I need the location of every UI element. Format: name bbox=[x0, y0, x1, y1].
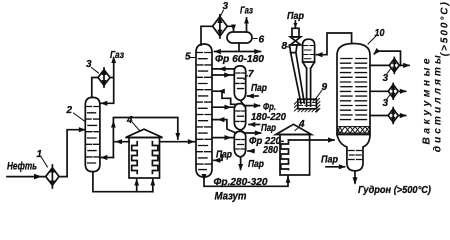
wire product fraction 280-320 down bbox=[240, 157, 242, 169]
label 3 (top condenser) bbox=[221, 1, 229, 16]
furnace 4 (left) coil left bbox=[132, 142, 138, 174]
svg-text:3: 3 bbox=[383, 98, 389, 109]
wire product vacuum distillate 2 bbox=[398, 90, 405, 92]
furnace 4 (left) coil right bbox=[152, 142, 158, 174]
label 6 bbox=[254, 35, 265, 46]
label 3 (cooler 1) bbox=[383, 69, 391, 84]
wire hot jet riser and transfer line bbox=[113, 118, 177, 158]
wire draw 1 from column 10 to cooler bbox=[370, 64, 389, 66]
label 2 bbox=[66, 105, 86, 122]
svg-text:280: 280 bbox=[262, 144, 278, 156]
wire furnace inlet riser right bbox=[152, 180, 154, 192]
wire vacuum column overhead to ejector condenser bbox=[317, 33, 352, 55]
label 4 (left furnace) bbox=[126, 115, 140, 131]
svg-text:6: 6 bbox=[259, 35, 265, 46]
wire steam into column 10 bbox=[326, 166, 345, 168]
svg-text:дистилляты: дистилляты bbox=[433, 55, 444, 152]
wire product vacuum distillate 1 bbox=[399, 64, 409, 66]
wire condenser 3 to gas outlet and reflux bbox=[110, 58, 114, 78]
wire vapour return stripper section 3 to column 5 (jog) bbox=[212, 120, 236, 133]
wire feed line to exchanger 1 bbox=[7, 176, 46, 178]
wire product fraction 220-280 bbox=[241, 130, 261, 133]
heat exchanger 1 bbox=[46, 165, 59, 188]
svg-text:Гудрон (>500°C): Гудрон (>500°C) bbox=[358, 184, 431, 196]
svg-text:Пар: Пар bbox=[261, 123, 276, 134]
condenser 3 (column 2 overhead) bbox=[98, 68, 110, 87]
label 3 (cooler 2) bbox=[383, 96, 390, 109]
wire reflux return to column 2 bbox=[101, 78, 114, 104]
furnace 4 (right) coil bbox=[281, 140, 289, 170]
condenser 3 (column 5 overhead) bbox=[213, 15, 228, 38]
section 1 trays bbox=[235, 73, 246, 89]
wire column 2 bottoms to furnace 4 bbox=[93, 172, 153, 192]
label 4 (right furnace) bbox=[295, 119, 305, 131]
furnace 4 (left) roof bbox=[126, 129, 163, 137]
svg-text:3: 3 bbox=[86, 59, 92, 70]
wire column 2 overhead to condenser 3 bbox=[92, 78, 98, 98]
label 5 bbox=[185, 52, 196, 63]
section 3 trays bbox=[235, 140, 246, 150]
svg-text:Газ: Газ bbox=[240, 6, 253, 17]
column 5 bbox=[196, 44, 212, 177]
label 8 bbox=[282, 41, 291, 52]
label 7 bbox=[244, 69, 254, 80]
section 2 trays bbox=[235, 111, 246, 121]
column 5 trays bbox=[196, 53, 211, 170]
wire draw 2 from column 10 to cooler bbox=[370, 90, 388, 92]
cooler 3 (vacuum distillate 2) bbox=[388, 83, 398, 99]
wire product vacuum distillate 3 bbox=[398, 115, 405, 117]
wire steam into section 1 bbox=[248, 95, 259, 97]
wire draw 3 from column 10 to cooler bbox=[370, 115, 388, 117]
column 2 bbox=[85, 97, 100, 171]
wire vapour return stripper section 2 to column 5 (jog) bbox=[213, 91, 236, 104]
wire gas outlet from separator 6 bbox=[246, 18, 248, 32]
svg-text:3: 3 bbox=[383, 73, 389, 84]
wire steam into column 5 bbox=[214, 155, 222, 160]
svg-text:Фр 60-180: Фр 60-180 bbox=[215, 53, 264, 65]
wire separator 6 bottoms: reflux to column 5 and product bbox=[215, 43, 261, 52]
separator 6 bbox=[227, 32, 252, 43]
wire steam into section 2 bbox=[249, 124, 260, 126]
furnace 4 (right) box bbox=[280, 135, 310, 176]
column 10 bottom head and stripping section bbox=[337, 135, 370, 171]
svg-text:180-220: 180-220 bbox=[251, 111, 286, 123]
svg-text:10: 10 bbox=[375, 28, 385, 39]
stripping column 7 section 2 bbox=[234, 104, 245, 130]
svg-text:Пар: Пар bbox=[251, 83, 267, 94]
svg-text:Газ: Газ bbox=[110, 50, 124, 61]
label 3 (left condenser) bbox=[86, 59, 99, 73]
column 10 bottom trays bbox=[349, 151, 362, 160]
wire draw from column 5 to stripper section 1 bbox=[212, 74, 234, 76]
column 2 trays bbox=[86, 107, 100, 164]
label 1 bbox=[37, 149, 48, 167]
cooler 3 (vacuum distillate 3) bbox=[388, 108, 398, 124]
wire column 5 overhead to condenser 3 bbox=[201, 26, 213, 45]
stripping column 7 section 1 bbox=[234, 66, 245, 101]
ejector condenser vessel bbox=[303, 39, 315, 106]
column 10 packing band (crosshatch) bbox=[337, 127, 369, 133]
label 9 bbox=[317, 82, 328, 98]
ejector 8 bbox=[290, 28, 305, 103]
furnace 4 (right) roof bbox=[276, 124, 312, 134]
column 10 trays bbox=[341, 59, 367, 120]
wire tar outlet bbox=[354, 171, 356, 183]
cooler 3 (vacuum distillate 1) bbox=[389, 58, 399, 74]
svg-text:Пар: Пар bbox=[321, 153, 338, 165]
svg-text:Пар: Пар bbox=[248, 159, 264, 170]
svg-text:Нефть: Нефть bbox=[7, 161, 37, 173]
wire draw from column 5 to stripper section 3 bbox=[212, 137, 234, 139]
svg-text:4: 4 bbox=[298, 119, 305, 130]
wire vapour return stripper section 1 to column 5 bbox=[212, 68, 234, 70]
wire column 5 bottoms (mazut) to furnace 4 right bbox=[204, 177, 288, 187]
svg-text:(>500°C): (>500°C) bbox=[440, 2, 450, 57]
svg-text:7: 7 bbox=[248, 69, 254, 80]
wire draw from column 5 to stripper section 2 bbox=[212, 106, 234, 108]
furnace 4 (left) box bbox=[129, 138, 160, 179]
wire transfer line into column 5 bbox=[160, 141, 195, 143]
wire condenser 3 to separator 6 bbox=[227, 26, 233, 30]
svg-text:2: 2 bbox=[66, 105, 73, 116]
wire furnace inlet riser left bbox=[136, 180, 138, 192]
label 10 bbox=[368, 28, 385, 44]
svg-text:Мазут: Мазут bbox=[215, 190, 247, 202]
wire furnace left outlet to riser bbox=[114, 141, 129, 143]
wire product fraction 180-220 bbox=[241, 101, 260, 106]
wire hot jet return to column 2 bbox=[101, 157, 113, 159]
svg-text:Вакуумные: Вакуумные bbox=[422, 58, 433, 144]
vacuum column 10 bbox=[337, 44, 370, 135]
wire steam into ejector bbox=[294, 21, 296, 27]
barometric condenser well 9 bbox=[294, 98, 320, 112]
wire exchanger 1 to column 2 bbox=[59, 130, 85, 177]
wire furnace 4 right outlet to vacuum column 10 bbox=[289, 139, 335, 141]
stripping column 7 section 3 bbox=[234, 131, 245, 157]
wire reflux loop back to column 10 top bbox=[374, 51, 400, 65]
wire steam into section 3 bbox=[248, 150, 254, 152]
svg-text:9: 9 bbox=[322, 82, 328, 93]
svg-text:Фр.280-320: Фр.280-320 bbox=[214, 176, 268, 188]
